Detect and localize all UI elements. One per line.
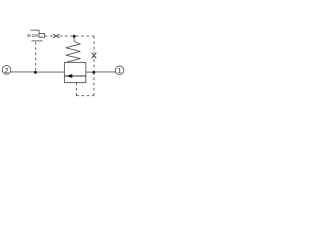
- orifice O2: [92, 53, 97, 58]
- drain wire dashed node B down and around to valve bottom: [75, 83, 77, 96]
- wire port2 to node A: [10, 71, 34, 73]
- port circle 1: [115, 66, 124, 75]
- node B junction dot: [92, 71, 95, 74]
- orifice O1: [53, 34, 59, 38]
- cavity plug P1 body rect: [39, 34, 45, 38]
- node C pilot junction dot: [73, 35, 76, 38]
- pilot wire dashed orifice O1 to node C: [60, 35, 73, 37]
- flow arrow inside valve: [64, 74, 85, 78]
- wire node A to valve body: [37, 71, 65, 73]
- svg-text:1: 1: [117, 66, 121, 75]
- svg-text:2: 2: [4, 66, 8, 75]
- node A junction dot: [34, 71, 37, 74]
- wire node B to port 1: [95, 71, 116, 73]
- cavity plug P1 step line: [31, 30, 40, 33]
- port circle 2: [2, 66, 11, 75]
- spring: [66, 38, 81, 63]
- pilot wire dashed node A up to plug bar: [35, 41, 37, 71]
- pilot wire dashed node C to corner: [76, 35, 95, 37]
- drain wire dashed right riser to node B: [93, 74, 95, 96]
- svg-text:8A CAV: 8A CAV: [28, 33, 39, 38]
- pilot wire dashed orifice O2 to node B: [93, 59, 95, 70]
- cavity plug P1 bottom bar: [31, 40, 42, 42]
- wire valve to node B: [86, 71, 93, 73]
- pilot wire dashed corner to orifice O2: [93, 36, 95, 53]
- pilot wire dashed from plug to orifice O1: [45, 35, 53, 37]
- drain wire dashed bottom run: [76, 95, 94, 97]
- relief valve body V1: [64, 62, 85, 82]
